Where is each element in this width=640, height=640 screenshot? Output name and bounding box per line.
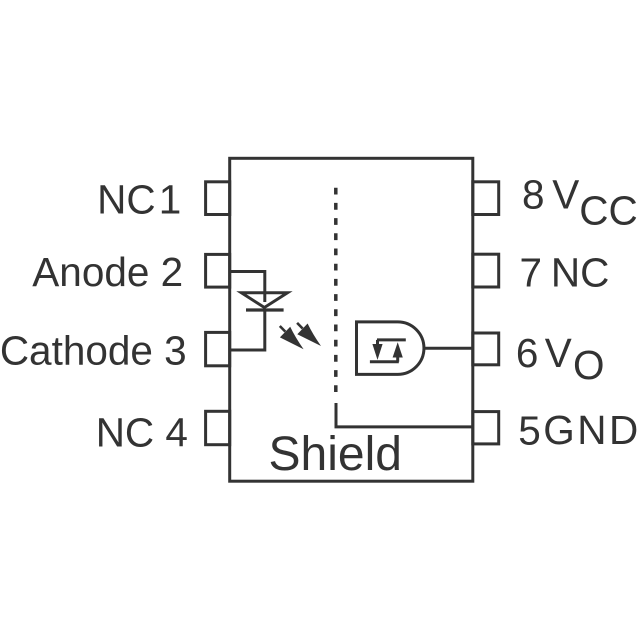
svg-text:GND: GND bbox=[543, 407, 640, 453]
svg-text:V: V bbox=[552, 172, 579, 218]
svg-text:Anode 2: Anode 2 bbox=[32, 249, 183, 295]
light arrow 1 body bbox=[280, 327, 304, 350]
svg-text:NC 4: NC 4 bbox=[96, 410, 188, 456]
LED emitter triangle bbox=[241, 293, 287, 308]
detector down-arrow stub bbox=[376, 340, 379, 345]
pin 6 box bbox=[473, 333, 499, 365]
wire detector output to pin 6 bbox=[424, 347, 472, 350]
light arrow 2 stub bbox=[297, 323, 303, 329]
pin 7 box bbox=[473, 254, 499, 287]
svg-text:NC: NC bbox=[551, 250, 610, 296]
photodetector envelope bbox=[357, 322, 424, 375]
svg-text:1: 1 bbox=[159, 176, 182, 222]
wire anode from pin 2 bbox=[230, 272, 265, 303]
detector up-arrow head bbox=[393, 342, 403, 357]
wire cathode to pin 3 bbox=[230, 310, 265, 350]
svg-text:5: 5 bbox=[518, 407, 541, 453]
pin 2 box bbox=[206, 254, 230, 287]
svg-text:8: 8 bbox=[522, 172, 545, 218]
svg-text:Shield: Shield bbox=[269, 428, 402, 481]
pin 4 box bbox=[206, 411, 230, 444]
pin 8 box bbox=[473, 182, 499, 215]
shield wire to pin 5 GND bbox=[336, 403, 472, 427]
pin 3 box bbox=[206, 332, 230, 365]
svg-text:V: V bbox=[545, 330, 572, 376]
light arrow 2 body bbox=[297, 324, 321, 347]
detector down-arrow head bbox=[372, 344, 382, 360]
detector top plate bbox=[377, 338, 406, 341]
pin 5 box bbox=[473, 412, 499, 444]
svg-text:6: 6 bbox=[516, 330, 539, 376]
LED cathode bar bbox=[246, 308, 284, 311]
detector up-arrow stub bbox=[396, 357, 399, 362]
svg-text:CC: CC bbox=[579, 187, 638, 233]
detector bottom plate bbox=[370, 360, 399, 363]
svg-text:Cathode 3: Cathode 3 bbox=[0, 328, 187, 374]
svg-text:7: 7 bbox=[520, 250, 543, 296]
svg-text:O: O bbox=[573, 342, 605, 388]
svg-text:NC: NC bbox=[97, 177, 156, 223]
shield dashed line bbox=[334, 188, 338, 392]
optocoupler IC body outline bbox=[230, 158, 473, 481]
light arrow 1 stub bbox=[280, 326, 286, 332]
pin 1 box bbox=[206, 182, 230, 215]
